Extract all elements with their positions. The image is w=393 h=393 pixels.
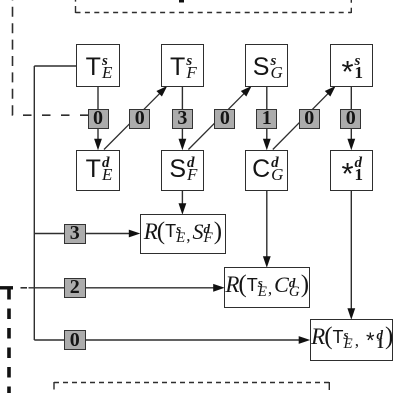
arrow gray 0 to T_E^d [97,129,99,140]
left dashed line vertical [12,0,14,115]
box R(T_E^s, *_1^d) [310,319,393,361]
box R(T_E^s, C_G^d) [224,267,310,308]
thick dashed line vertical [7,289,11,393]
gray box 1 (col G) [256,109,277,129]
gray box 3 (col F) [172,109,193,129]
gray box 2 (left rail) [64,278,86,298]
box S_F^d [161,150,204,192]
wire T_F^s to gray 3 [181,86,183,110]
gray box 0 (left rail) [64,330,86,350]
gray box 0 (col E) [88,109,109,129]
arrow *_1^d to R3 [350,191,352,309]
arrow S_F^d to R1 [181,191,183,204]
box S_G^s [245,44,288,87]
wire S_G^s to gray 1 [266,86,268,110]
arrow 2 to R2 [86,287,214,289]
arrow gray 0 to *_1^d [350,129,352,140]
arrow 0 to R3 [86,339,300,341]
arrow gray 1 to C_G^d [266,129,268,140]
box C_G^d [245,150,288,192]
bottom dashed box (cut off at bottom) [54,382,329,384]
gray box 0 (between G,*) [299,109,320,129]
gray box 3 (left rail) [64,224,86,244]
gray box 0 (col *) [340,109,361,129]
box *_1^s [330,44,374,87]
wire T_E^s to gray 0 [97,86,99,110]
box T_E^s [76,44,119,87]
wire rail to box 3 [34,233,64,235]
small dash left of level-2 line [21,287,28,289]
cut text fragment top [179,0,184,3]
arrow 3 to R1 [86,233,130,235]
thick dashed corner horizontal [0,286,13,289]
gray box 0 (between E,F) [129,109,150,129]
box *_1^d [330,150,374,192]
box T_E^d [76,150,119,192]
wire from left rail to T_E^s [34,65,76,67]
wire rail to box 2 [29,287,65,289]
arrow gray 3 to S_F^d [181,129,183,140]
diagonal arrow T_E^d to T_F^s [104,93,160,149]
wire rail to box 0 [34,339,64,341]
box R(T_E^s, S_F^d) [140,214,227,254]
diagonal arrow C_G^d to *_1^s [273,93,329,149]
gray box 0 (between F,G) [214,109,235,129]
box T_F^s [161,44,204,87]
wire *_1^s to gray 0 [350,86,352,110]
left rail vertical [33,66,35,340]
left dashed line horizontal to gray box 0 [12,114,89,116]
top dashed box (cut off at top) [76,12,352,14]
diagonal arrow S_F^d to S_G^s [188,93,244,149]
arrow C_G^d to R2 [266,191,268,257]
